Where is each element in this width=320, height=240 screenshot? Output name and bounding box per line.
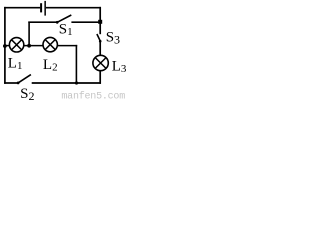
wire inner vertical (75, 45, 77, 83)
wire top-left (battery left lead) (4, 7, 40, 9)
svg-text:S2: S2 (20, 86, 34, 102)
svg-text:manfen5.com: manfen5.com (61, 91, 125, 103)
wire top-right (battery right lead) (46, 7, 101, 9)
wire L1 to L2 (24, 45, 44, 47)
wire S1 branch left (28, 21, 56, 23)
wire left side (4, 7, 6, 84)
wire L3 to bottom (99, 71, 101, 84)
wire L2 to inner corner (57, 45, 77, 47)
node junction (inner vertical / bottom wire) (75, 81, 78, 84)
switch S3 (97, 34, 102, 43)
wire to L1 (5, 45, 9, 47)
switch S1 (56, 15, 72, 24)
node junction right (S1 branch / right wire) (98, 20, 102, 24)
node junction A (S1 branch / lamp row) (27, 44, 31, 48)
wire S1 branch vertical (28, 22, 30, 46)
battery cell (40, 1, 46, 16)
node junction left (lamp row / left wire) (3, 44, 7, 48)
wire S1 branch right (71, 21, 100, 23)
lamp L3 (93, 55, 108, 70)
wire bottom-right (S2 to corner) (32, 82, 101, 84)
svg-text:S3: S3 (106, 30, 120, 47)
lamp L1 (9, 38, 23, 52)
wire S3 to L3 (99, 41, 101, 55)
wire right side upper (99, 7, 101, 34)
lamp L2 (43, 37, 57, 51)
switch S2 (17, 75, 31, 85)
wire bottom-left (to S2) (4, 82, 18, 84)
